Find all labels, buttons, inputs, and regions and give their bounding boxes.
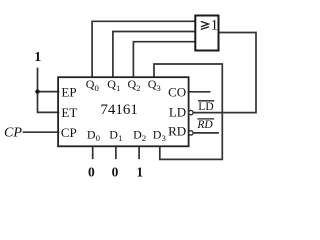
svg-text:74161: 74161 (100, 102, 137, 118)
svg-text:RD: RD (196, 119, 213, 131)
svg-text:CP: CP (4, 126, 22, 141)
svg-text:0: 0 (112, 164, 119, 179)
svg-text:EP: EP (61, 84, 76, 99)
svg-text:1: 1 (34, 50, 41, 65)
svg-text:1: 1 (136, 164, 143, 179)
svg-text:ET: ET (61, 105, 77, 120)
svg-text:RD: RD (168, 123, 186, 138)
svg-text:CO: CO (168, 84, 186, 99)
svg-text:LD: LD (198, 101, 213, 113)
svg-text:CP: CP (61, 125, 77, 140)
svg-text:0: 0 (88, 164, 95, 179)
svg-text:LD: LD (169, 104, 186, 119)
svg-text:1: 1 (211, 18, 219, 34)
